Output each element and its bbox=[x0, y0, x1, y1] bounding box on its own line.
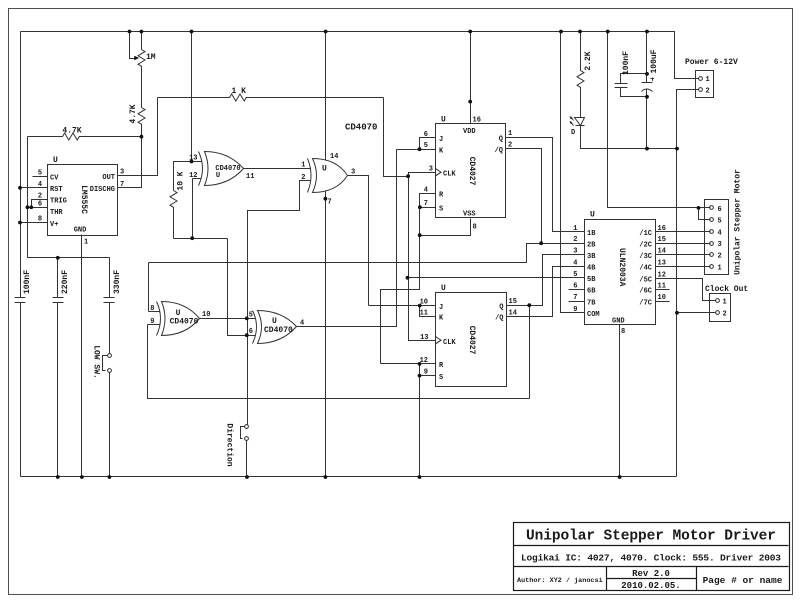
svg-text:7: 7 bbox=[573, 294, 577, 302]
svg-text:3: 3 bbox=[718, 241, 722, 249]
svg-text:U: U bbox=[590, 211, 595, 220]
pin THR 6 wire bbox=[28, 207, 48, 209]
wire XOR1 out to XOR2 in1 bbox=[244, 168, 311, 170]
clock out pin 1 bbox=[716, 299, 720, 303]
svg-text:8: 8 bbox=[621, 328, 625, 336]
pin 7B stub bbox=[569, 301, 585, 303]
wire XOR2 in2 stub bbox=[248, 181, 311, 319]
pin 5B bbox=[575, 277, 585, 279]
svg-text:5: 5 bbox=[424, 142, 428, 150]
motor pin 1 bbox=[710, 265, 714, 269]
resistor R5 10K bbox=[170, 191, 177, 239]
svg-text:S: S bbox=[439, 374, 443, 382]
svg-text:Rev 2.0: Rev 2.0 bbox=[632, 569, 670, 579]
svg-text:RST: RST bbox=[50, 186, 63, 194]
pin /5C 12 wire to clock out bbox=[656, 279, 716, 301]
switch LOW SW bbox=[108, 354, 112, 358]
wire 555 GND to ground rail bbox=[81, 235, 83, 477]
svg-text:12: 12 bbox=[189, 172, 197, 180]
svg-text:14: 14 bbox=[330, 153, 338, 161]
svg-text:1: 1 bbox=[706, 76, 710, 84]
svg-text:6: 6 bbox=[38, 201, 42, 209]
resistor R4 1K bbox=[158, 94, 384, 101]
title block box bbox=[514, 523, 790, 591]
resistor R6 2.2K bbox=[577, 32, 584, 118]
svg-text:10: 10 bbox=[202, 311, 210, 319]
svg-text:/4C: /4C bbox=[639, 265, 652, 273]
svg-text:15: 15 bbox=[509, 298, 517, 306]
svg-text:DISCHG: DISCHG bbox=[90, 186, 115, 194]
capacitor C1 100nF bbox=[15, 298, 26, 303]
svg-text:U: U bbox=[322, 165, 327, 174]
pin /4C 13 wire to motor pin1 bbox=[656, 266, 711, 268]
connector Unipolar Stepper Motor box bbox=[705, 200, 729, 275]
svg-text:100uF: 100uF bbox=[650, 49, 659, 73]
svg-text:CLK: CLK bbox=[443, 170, 456, 178]
svg-text:/1C: /1C bbox=[639, 230, 652, 238]
pin 2B bbox=[575, 243, 585, 245]
svg-text:2.2K: 2.2K bbox=[584, 51, 593, 70]
svg-text:CLK: CLK bbox=[443, 339, 456, 347]
timer U1 LM555C box bbox=[48, 165, 118, 236]
pin R 4 wire bbox=[420, 194, 436, 208]
svg-text:S: S bbox=[439, 205, 443, 213]
svg-text:GND: GND bbox=[74, 227, 87, 235]
pin S 9 wire bbox=[420, 364, 436, 376]
svg-text:6: 6 bbox=[718, 206, 722, 214]
wire VSS to RS chain bbox=[420, 219, 471, 236]
svg-text:5: 5 bbox=[38, 170, 42, 178]
svg-text:4.7K: 4.7K bbox=[62, 127, 81, 136]
svg-text:16: 16 bbox=[473, 117, 481, 125]
svg-text:2: 2 bbox=[723, 311, 727, 319]
svg-text:5: 5 bbox=[573, 271, 577, 279]
motor pin 4 bbox=[710, 230, 714, 234]
svg-text:OUT: OUT bbox=[102, 174, 115, 182]
wire direction riser bbox=[247, 319, 249, 425]
wire 10K bottom to pin12 riser bbox=[174, 238, 228, 240]
svg-text:5B: 5B bbox=[587, 276, 596, 284]
wire LED to ground link bbox=[581, 126, 677, 149]
wire motor pin6 bbox=[699, 207, 711, 209]
svg-text:10 K: 10 K bbox=[177, 171, 186, 190]
pin /Q 2 wire bbox=[506, 149, 575, 244]
svg-text:6B: 6B bbox=[587, 288, 596, 296]
svg-text:9: 9 bbox=[150, 318, 154, 326]
potentiometer R2 1M bbox=[138, 32, 145, 108]
resistor R1 4.7K horizontal bbox=[28, 133, 142, 140]
V+ top rail wire bbox=[21, 32, 699, 79]
svg-text:1: 1 bbox=[301, 161, 305, 169]
svg-text:Q: Q bbox=[499, 303, 503, 311]
svg-text:4: 4 bbox=[38, 181, 42, 189]
svg-text:V+: V+ bbox=[50, 221, 58, 229]
pin CLK 3 wire bbox=[409, 173, 436, 341]
flip-flop U3B CD4027 box bbox=[436, 293, 507, 387]
wire cap bottom to ground link bbox=[646, 97, 648, 149]
pin V+ 8 wire bbox=[21, 222, 48, 224]
svg-text:LOW SW.: LOW SW. bbox=[92, 345, 101, 379]
capacitor C2 220nF bbox=[53, 298, 64, 303]
pin 4B bbox=[575, 266, 585, 268]
svg-text:U: U bbox=[176, 309, 181, 318]
LED D bbox=[575, 118, 585, 126]
wire XOR2 pin14 from rail bbox=[325, 32, 327, 161]
wire clock line to 5B bbox=[408, 277, 575, 279]
svg-text:1: 1 bbox=[573, 225, 577, 233]
svg-text:1: 1 bbox=[723, 299, 727, 307]
pot wiper arrow bbox=[134, 56, 139, 60]
pin /6C 11 stub bbox=[656, 289, 670, 291]
pin K 5 wire bbox=[397, 149, 436, 151]
svg-text:100nF: 100nF bbox=[622, 51, 631, 75]
pin 6B stub bbox=[569, 289, 585, 291]
svg-text:1: 1 bbox=[718, 264, 722, 272]
connector Clock Out box bbox=[710, 294, 731, 322]
pin 3B bbox=[575, 254, 585, 256]
svg-text:CD4070: CD4070 bbox=[170, 318, 199, 327]
svg-text:/7C: /7C bbox=[639, 299, 652, 307]
wire THR/TRIG node vertical bbox=[28, 137, 110, 477]
wire power pin2 to ground bbox=[677, 90, 699, 477]
wire riser to XOR4 in6 bbox=[228, 239, 256, 336]
wire /Q node to long feedback line bbox=[149, 244, 542, 263]
pin /7C 10 stub bbox=[656, 301, 670, 303]
pin S 7 wire bbox=[420, 207, 436, 209]
wire pin13 node to 10K bbox=[174, 162, 192, 191]
svg-text:2B: 2B bbox=[587, 241, 596, 249]
wire S to ground rail bbox=[419, 376, 421, 477]
svg-text:13: 13 bbox=[420, 334, 428, 342]
pin /1C 16 wire to motor pin4 bbox=[656, 231, 711, 233]
svg-text:/2C: /2C bbox=[639, 241, 652, 249]
svg-text:14: 14 bbox=[509, 309, 517, 317]
svg-text:8: 8 bbox=[38, 216, 42, 224]
wire DISCHG to R3 node bbox=[118, 137, 142, 188]
svg-text:9: 9 bbox=[424, 369, 428, 377]
svg-text:/5C: /5C bbox=[639, 277, 652, 285]
svg-text:Power 6-12V: Power 6-12V bbox=[685, 58, 738, 67]
pin Q 15 wire bbox=[507, 255, 575, 306]
wire XOR4 out riser to FF1 K bbox=[297, 150, 397, 327]
svg-text:2: 2 bbox=[718, 253, 722, 261]
svg-text:1B: 1B bbox=[587, 230, 596, 238]
svg-text:Q: Q bbox=[499, 135, 503, 143]
svg-text:4: 4 bbox=[424, 187, 428, 195]
svg-text:GND: GND bbox=[612, 317, 625, 325]
svg-text:5: 5 bbox=[718, 217, 722, 225]
wire RS chain down bbox=[381, 208, 420, 364]
svg-text:4B: 4B bbox=[587, 265, 596, 273]
svg-text:U: U bbox=[216, 172, 220, 180]
pin COM 9 wire bbox=[561, 32, 585, 313]
svg-text:U: U bbox=[441, 116, 446, 125]
pin /2C 15 wire to motor pin3 bbox=[656, 243, 711, 245]
svg-text:13: 13 bbox=[658, 259, 666, 267]
wire pin12 drop bbox=[192, 179, 194, 239]
xor gate U2B CD4070 (1,2-3) with power pins 14/7 bbox=[301, 153, 355, 207]
svg-text:1 K: 1 K bbox=[231, 87, 246, 96]
svg-text:7: 7 bbox=[424, 200, 428, 208]
pin J 6 wire bbox=[420, 138, 436, 150]
svg-text:2: 2 bbox=[508, 142, 512, 150]
capacitor C5 100uF polarized bbox=[642, 32, 653, 97]
svg-text:100nF: 100nF bbox=[23, 270, 32, 294]
svg-text:11: 11 bbox=[658, 282, 666, 290]
wire direction to ground bbox=[246, 441, 248, 477]
svg-text:6: 6 bbox=[424, 131, 428, 139]
wire XOR2 pin7 to ground rail bbox=[325, 191, 327, 477]
wire XOR3 out to XOR4 in5 bbox=[200, 318, 256, 320]
svg-text:220nF: 220nF bbox=[61, 270, 70, 294]
svg-text:/Q: /Q bbox=[495, 315, 503, 323]
svg-text:3B: 3B bbox=[587, 253, 596, 261]
pin 1B bbox=[575, 231, 585, 233]
switch Direction bbox=[245, 425, 249, 429]
svg-text:2: 2 bbox=[706, 88, 710, 96]
wire OUT to 1K bbox=[118, 98, 158, 176]
wire clock out pin2 to ground bbox=[677, 312, 716, 314]
svg-text:2: 2 bbox=[573, 236, 577, 244]
svg-text:Page # or name: Page # or name bbox=[703, 575, 783, 586]
svg-text:VDD: VDD bbox=[463, 128, 476, 136]
svg-text:CD4070: CD4070 bbox=[264, 326, 293, 335]
wire V+ to motor common bbox=[608, 32, 711, 220]
svg-text:TRIG: TRIG bbox=[50, 198, 67, 206]
svg-text:J: J bbox=[439, 304, 443, 312]
svg-text:LM555C: LM555C bbox=[79, 185, 88, 214]
svg-text:3: 3 bbox=[429, 166, 433, 174]
svg-text:D: D bbox=[571, 129, 575, 137]
svg-text:11: 11 bbox=[246, 173, 254, 181]
svg-text:6: 6 bbox=[573, 282, 577, 290]
svg-text:CD4027: CD4027 bbox=[467, 326, 476, 355]
capacitor C4 100nF top bbox=[615, 74, 647, 97]
clock out pin 2 bbox=[716, 311, 720, 315]
svg-text:ULN2003A: ULN2003A bbox=[617, 248, 626, 287]
wire VDD riser bbox=[470, 32, 472, 124]
svg-text:7B: 7B bbox=[587, 299, 596, 307]
svg-text:COM: COM bbox=[587, 311, 600, 319]
svg-text:11: 11 bbox=[420, 309, 428, 317]
svg-text:330nF: 330nF bbox=[113, 270, 122, 294]
svg-text:8: 8 bbox=[150, 305, 154, 313]
pin CLK 13 bbox=[436, 337, 442, 344]
svg-text:4: 4 bbox=[718, 230, 722, 238]
ground rail wire bbox=[21, 476, 677, 478]
svg-text:1: 1 bbox=[508, 130, 512, 138]
svg-text:4: 4 bbox=[573, 259, 577, 267]
svg-text:J: J bbox=[439, 136, 443, 144]
power pin 2 bbox=[699, 88, 703, 92]
svg-text:8: 8 bbox=[473, 224, 477, 232]
svg-text:1M: 1M bbox=[146, 53, 156, 62]
left rail wire x=20 bbox=[20, 32, 22, 477]
wire ULN GND to rail bbox=[619, 325, 621, 477]
capacitor C3 330nF bbox=[104, 298, 115, 303]
svg-text:CV: CV bbox=[50, 175, 59, 183]
wire 1K down to CLK node bbox=[384, 98, 409, 177]
pin TRIG 2 wire bbox=[32, 200, 48, 208]
driver U4 ULN2003A box bbox=[585, 220, 656, 325]
pin Q 1 wire bbox=[506, 138, 575, 232]
motor pin 2 bbox=[710, 253, 714, 257]
svg-text:16: 16 bbox=[658, 225, 666, 233]
svg-text:THR: THR bbox=[50, 209, 63, 217]
svg-text:6: 6 bbox=[249, 328, 253, 336]
svg-text:Logikai IC: 4027, 4070. Clock:: Logikai IC: 4027, 4070. Clock: 555. Driv… bbox=[521, 553, 781, 564]
svg-text:CD4070: CD4070 bbox=[345, 123, 377, 133]
pot wiper wire bbox=[130, 32, 136, 59]
wire XOR3 in8 riser bbox=[148, 263, 150, 312]
pin /Q 14 wire bbox=[507, 267, 575, 317]
svg-text:14: 14 bbox=[658, 248, 666, 256]
pin CV 5 stub bbox=[33, 176, 48, 178]
svg-text:CD4027: CD4027 bbox=[467, 157, 476, 186]
motor pin 5 bbox=[710, 218, 714, 222]
svg-text:Author: XY2 / janocsi: Author: XY2 / janocsi bbox=[517, 577, 603, 585]
pin R 12 wire bbox=[381, 363, 436, 365]
wire Q feedback riser bbox=[529, 306, 531, 399]
svg-text:15: 15 bbox=[658, 236, 666, 244]
pin J 10 wire bbox=[369, 305, 436, 307]
wire XOR2 out3 bbox=[348, 176, 369, 306]
svg-text:Clock Out: Clock Out bbox=[705, 285, 748, 294]
svg-text:U: U bbox=[272, 317, 277, 326]
xor gate U2A CD4070 (13,12-11) bbox=[189, 152, 254, 186]
motor pin 3 bbox=[710, 242, 714, 246]
svg-text:Direction: Direction bbox=[225, 423, 234, 466]
svg-text:2: 2 bbox=[38, 192, 42, 200]
xor gate U2D CD4070 (5,6-4) bbox=[247, 311, 305, 344]
svg-text:3: 3 bbox=[573, 248, 577, 256]
connector Power 6-12V box bbox=[696, 71, 714, 98]
svg-text:10: 10 bbox=[658, 294, 666, 302]
motor pin 6 bbox=[710, 206, 714, 210]
wire rail to XOR1 pin13 bbox=[191, 32, 193, 162]
svg-text:U: U bbox=[53, 156, 58, 165]
pin K 11 wire bbox=[420, 306, 436, 317]
svg-text:Unipolar Stepper Motor Driver: Unipolar Stepper Motor Driver bbox=[526, 529, 776, 545]
svg-text:12: 12 bbox=[658, 271, 666, 279]
wire XOR3 in9 riser bbox=[148, 325, 530, 399]
resistor R3 4.7K vertical bbox=[138, 108, 145, 137]
svg-text:1: 1 bbox=[84, 239, 88, 247]
svg-text:Unipolar Stepper Motor: Unipolar Stepper Motor bbox=[734, 169, 743, 275]
svg-text:7: 7 bbox=[328, 199, 332, 207]
svg-text:4.7K: 4.7K bbox=[129, 104, 138, 123]
svg-text:VSS: VSS bbox=[463, 211, 476, 219]
svg-text:2010.02.05.: 2010.02.05. bbox=[621, 581, 680, 591]
svg-text:/3C: /3C bbox=[639, 253, 652, 261]
svg-text:U: U bbox=[441, 284, 446, 293]
svg-text:/Q: /Q bbox=[495, 147, 503, 155]
pin /3C 14 wire to motor pin2 bbox=[656, 254, 711, 256]
pin RST 4 wire bbox=[21, 187, 48, 189]
svg-text:/6C: /6C bbox=[639, 288, 652, 296]
svg-text:9: 9 bbox=[573, 306, 577, 314]
flip-flop U3A CD4027 box bbox=[436, 124, 506, 218]
svg-text:5: 5 bbox=[249, 312, 253, 320]
xor gate U2C CD4070 (8,9-10) bbox=[148, 302, 211, 336]
power pin 1 bbox=[699, 77, 703, 81]
